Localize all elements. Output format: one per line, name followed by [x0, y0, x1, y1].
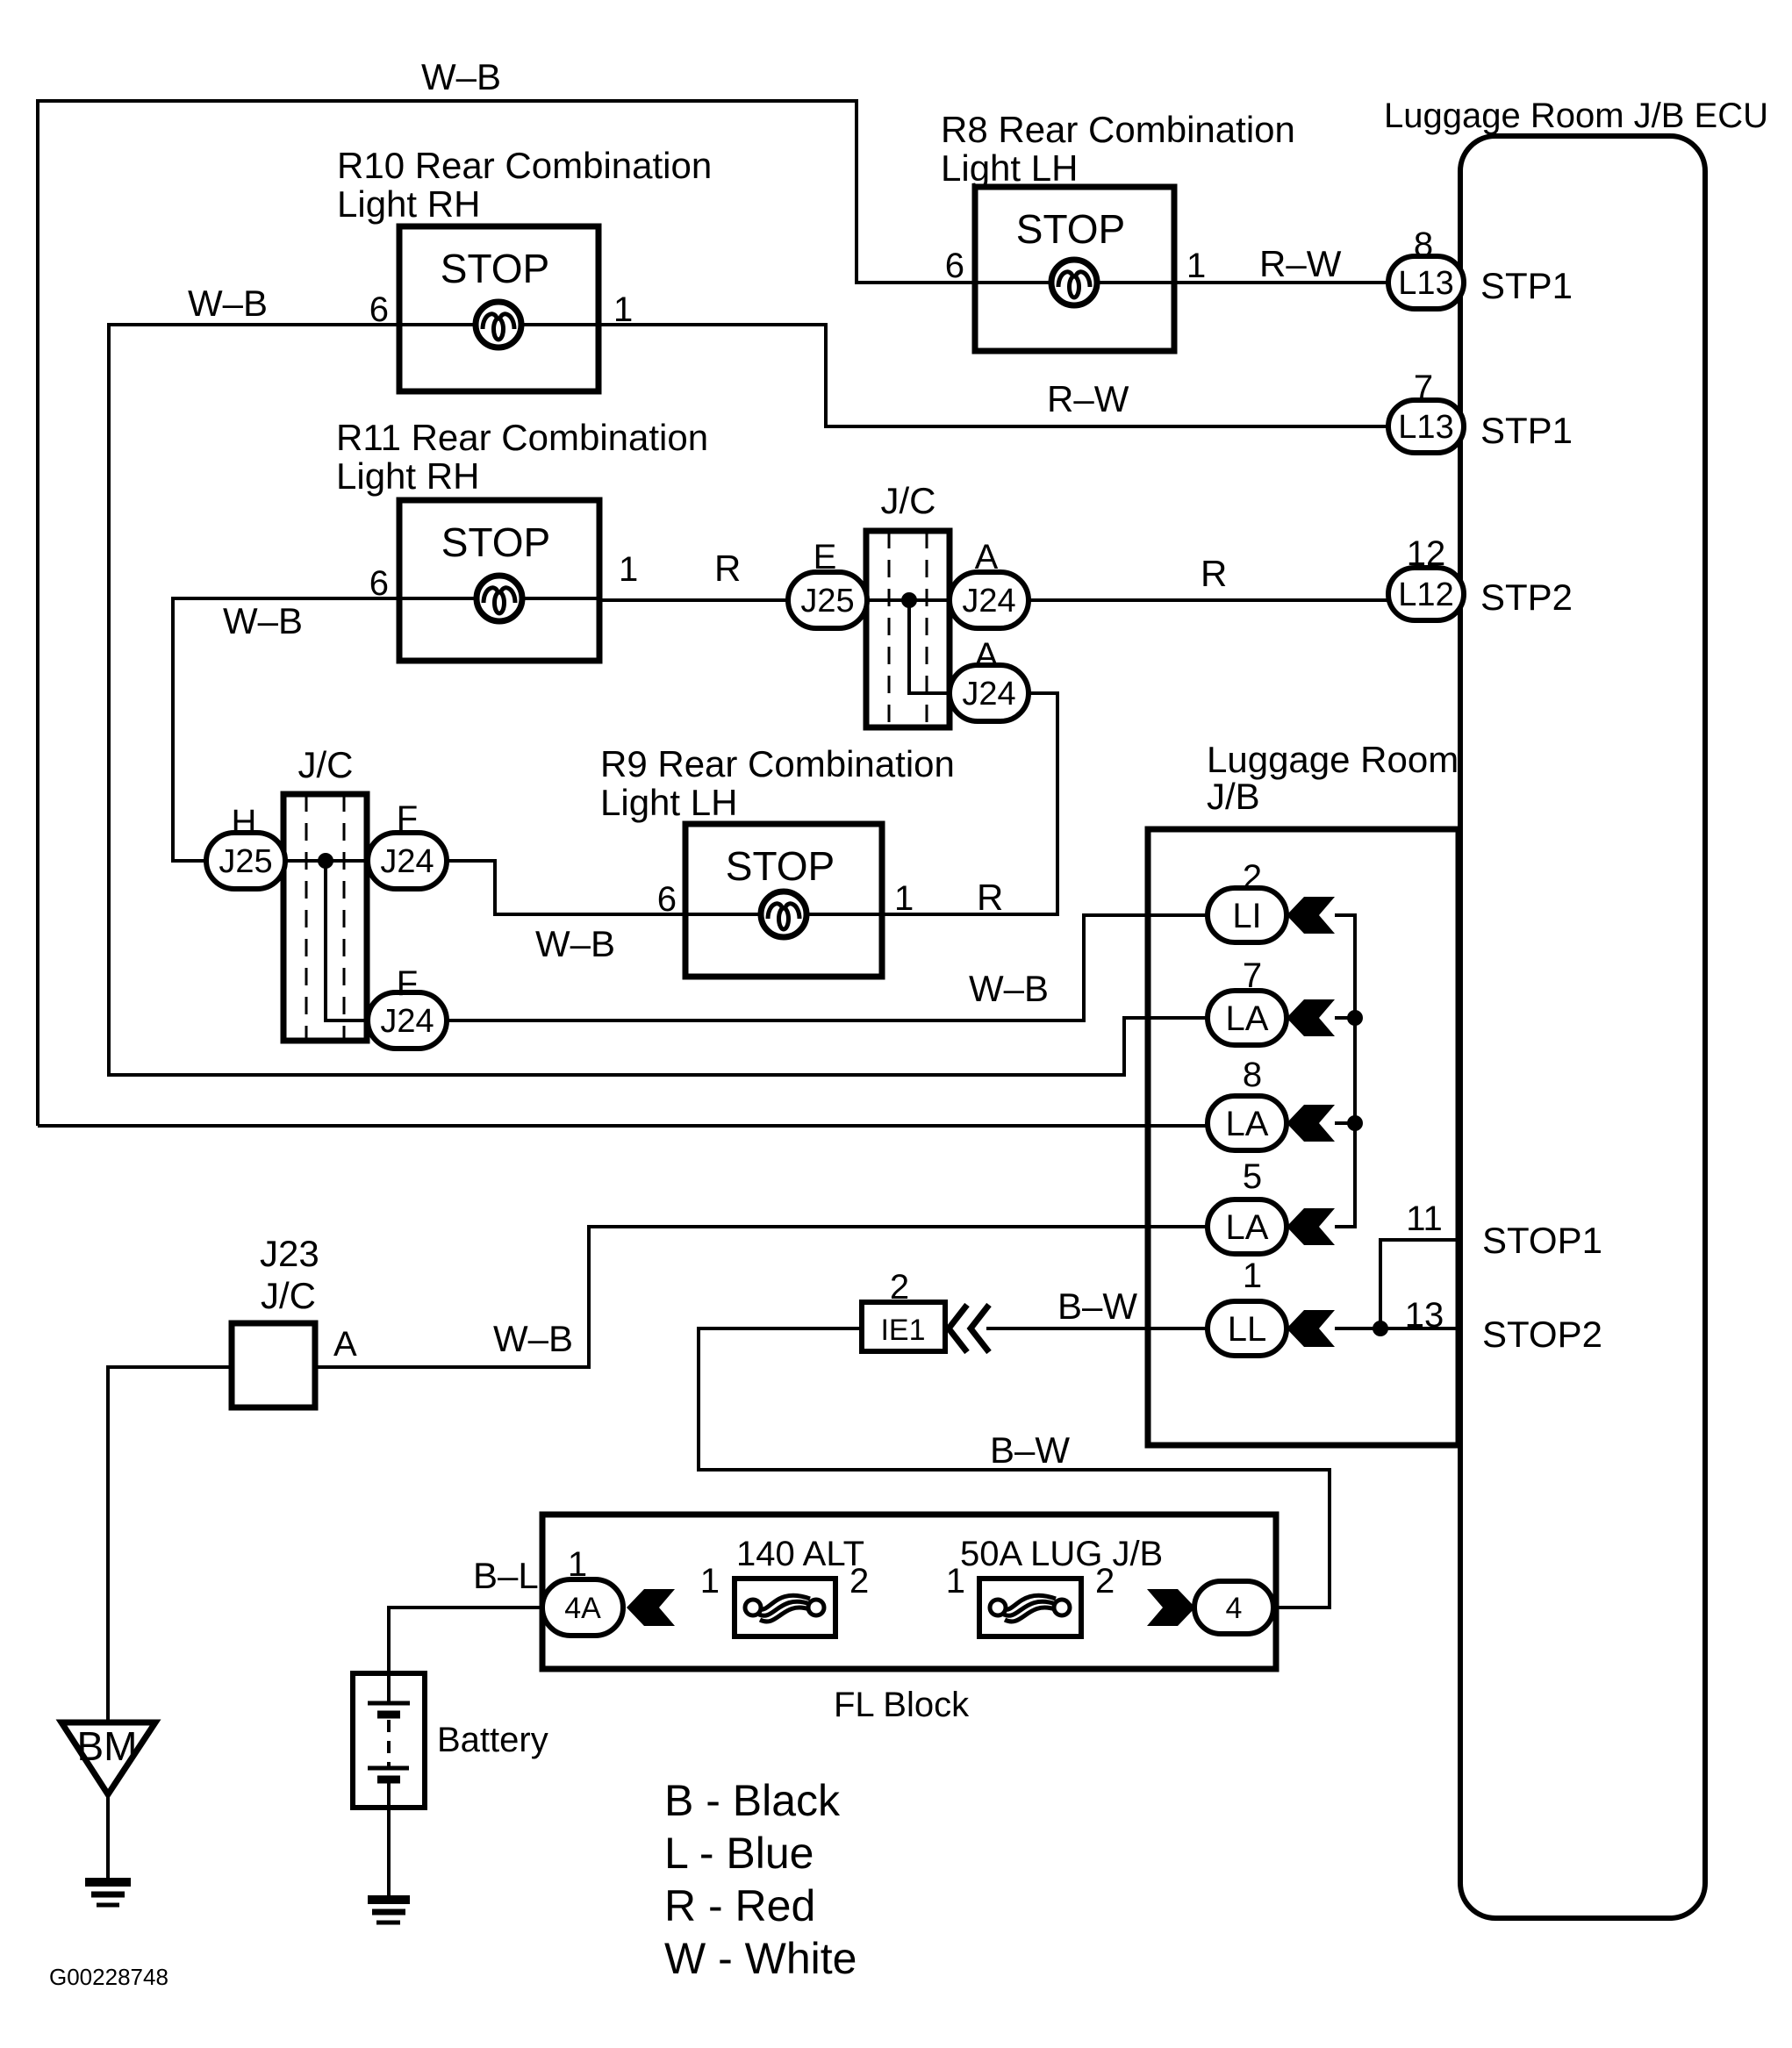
wire W-B: R10 pin 6 down left column to J/B LA pin 7: [109, 325, 1208, 1075]
FL Block box: [542, 1515, 1276, 1669]
wire inside J/C: junction to lower J24 F: [326, 861, 367, 1020]
bulb of R8: [1051, 260, 1097, 305]
svg-text:B–W: B–W: [990, 1429, 1070, 1471]
svg-text:4: 4: [1226, 1592, 1243, 1625]
wire R-W: R10 pin 1 to ECU L13 pin 7: [599, 325, 1388, 426]
wire W-B: J23 J/C to BM ground point: [108, 1367, 232, 1722]
svg-text:F: F: [397, 964, 418, 1003]
wire B-L: 4A connector to battery positive: [389, 1608, 542, 1673]
svg-text:13: 13: [1405, 1296, 1444, 1335]
svg-text:6: 6: [369, 564, 389, 603]
arrow into LA 7: [1287, 999, 1335, 1036]
svg-text:F: F: [397, 799, 418, 838]
wire through J/C J24: J25 H to J24 F: [206, 859, 447, 863]
svg-text:G00228748: G00228748: [49, 1964, 168, 1990]
wire W-B: bottom rail from left column to J/B LA pin 8: [38, 1124, 1208, 1128]
connector LA pin 8: [1208, 1096, 1287, 1150]
svg-text:W–B: W–B: [188, 283, 268, 324]
svg-text:L12: L12: [1398, 576, 1453, 613]
wire B-W: IE1 connector to J/B LL pin 1: [986, 1327, 1208, 1330]
svg-text:R8 Rear Combination: R8 Rear Combination: [941, 109, 1295, 150]
svg-text:2: 2: [1243, 858, 1262, 897]
svg-text:LI: LI: [1232, 897, 1261, 935]
svg-text:LA: LA: [1226, 999, 1269, 1038]
wire W-B: lower J24 F to J/B LI pin 2: [447, 915, 1208, 1020]
ECU box: Luggage Room J/B ECU: [1460, 136, 1705, 1918]
connector LA pin 5: [1208, 1199, 1287, 1254]
svg-text:R–W: R–W: [1259, 243, 1342, 284]
arrow into LL: [1287, 1310, 1335, 1347]
svg-text:R10 Rear Combination: R10 Rear Combination: [337, 145, 712, 186]
wire: BM triangle to ground: [106, 1794, 110, 1879]
svg-text:L13: L13: [1398, 409, 1453, 446]
wire inside J/C J23: J25 E to J24 A: [867, 598, 950, 602]
wire: J/B LL arrow to ECU pin 13 STOP2: [1335, 1327, 1460, 1330]
svg-text:A: A: [333, 1325, 357, 1364]
svg-text:E: E: [814, 538, 837, 576]
svg-text:W - White: W - White: [664, 1934, 857, 1983]
svg-text:H: H: [232, 803, 257, 841]
fusible link 50A LUG J/B: [979, 1579, 1081, 1636]
svg-text:5: 5: [1243, 1157, 1262, 1196]
arrow into LI: [1287, 897, 1335, 934]
wire inside J/C: junction to lower J24 A: [909, 600, 950, 693]
ground symbol below BM: [85, 1882, 131, 1905]
svg-text:4A: 4A: [564, 1592, 601, 1625]
junction inside left J/C: [318, 853, 333, 869]
svg-text:50A LUG J/B: 50A LUG J/B: [960, 1535, 1163, 1573]
wire: battery negative to ground: [387, 1808, 391, 1896]
svg-text:W–B: W–B: [223, 600, 303, 641]
bulb of R9: [761, 892, 806, 937]
lamp R11 Rear Combination Light RH: [399, 500, 599, 661]
svg-text:LA: LA: [1226, 1208, 1269, 1247]
svg-text:R: R: [977, 877, 1003, 918]
svg-text:Light RH: Light RH: [336, 455, 479, 497]
svg-text:Light RH: Light RH: [337, 183, 480, 225]
svg-text:R: R: [1201, 553, 1227, 594]
ground symbol below battery: [368, 1900, 410, 1923]
svg-text:J/B: J/B: [1207, 776, 1260, 817]
svg-text:STP1: STP1: [1480, 410, 1573, 451]
svg-text:11: 11: [1406, 1199, 1443, 1238]
svg-text:Light LH: Light LH: [941, 147, 1078, 189]
wire W-B: R11 pin 6 to J25 H of J/C: [173, 598, 399, 861]
bulb of R10: [476, 302, 521, 347]
svg-text:B–W: B–W: [1057, 1285, 1137, 1327]
svg-text:R: R: [714, 548, 741, 589]
svg-text:J24: J24: [380, 1003, 434, 1040]
svg-text:A: A: [975, 636, 999, 675]
arrow into LA 8: [1287, 1105, 1335, 1142]
svg-text:STOP: STOP: [726, 843, 835, 889]
svg-text:J24: J24: [380, 843, 434, 880]
connector J24 pin A: [950, 572, 1029, 628]
battery: [353, 1673, 425, 1808]
connector pin 4 of FL block: [1194, 1581, 1273, 1634]
svg-text:IE1: IE1: [880, 1314, 925, 1347]
wire: 4A to fuse 140 ALT pin 1: [623, 1606, 735, 1609]
svg-text:1: 1: [619, 550, 638, 589]
connector IE1: [862, 1302, 945, 1351]
svg-text:J25: J25: [800, 583, 854, 619]
svg-text:W–B: W–B: [535, 923, 615, 964]
svg-text:Light LH: Light LH: [600, 782, 737, 823]
svg-text:1: 1: [1186, 247, 1206, 285]
svg-text:8: 8: [1243, 1056, 1262, 1094]
svg-text:2: 2: [1095, 1562, 1115, 1600]
svg-text:Battery: Battery: [437, 1721, 548, 1759]
junction on bus at LA 7: [1347, 1010, 1363, 1026]
svg-text:2: 2: [849, 1562, 869, 1600]
junction on bus at LA 8: [1347, 1115, 1363, 1131]
fusible link 140 ALT: [735, 1579, 835, 1636]
svg-text:12: 12: [1407, 534, 1446, 573]
svg-text:STOP2: STOP2: [1482, 1314, 1602, 1355]
svg-text:STOP1: STOP1: [1482, 1220, 1602, 1261]
wire: J/B internal bus LI to LA: [1335, 915, 1355, 1227]
connector LA pin 7: [1208, 991, 1287, 1045]
wire B-W: IE1 down and across to FL block pin 4: [699, 1328, 1330, 1608]
connector 4A pin 1: [542, 1579, 623, 1636]
junction connector J23: [232, 1323, 315, 1407]
arrow into pin 4: [1147, 1589, 1195, 1626]
svg-text:STOP: STOP: [441, 519, 550, 565]
svg-text:W–B: W–B: [421, 56, 501, 97]
open chevron arrows at IE1: [949, 1305, 989, 1352]
junction block: Luggage Room J/B: [1148, 829, 1459, 1445]
junction connector J/C (left): [283, 794, 367, 1041]
svg-text:L13: L13: [1398, 265, 1453, 302]
svg-text:R - Red: R - Red: [664, 1881, 815, 1930]
svg-text:1: 1: [946, 1562, 965, 1600]
svg-text:1: 1: [894, 879, 914, 918]
svg-text:A: A: [975, 538, 999, 576]
svg-text:STP2: STP2: [1480, 576, 1573, 618]
svg-text:B - Black: B - Black: [664, 1776, 841, 1825]
svg-text:140 ALT: 140 ALT: [736, 1535, 864, 1573]
svg-text:6: 6: [945, 247, 964, 285]
svg-text:W–B: W–B: [969, 968, 1049, 1009]
svg-text:J/C: J/C: [261, 1275, 316, 1316]
lamp R9 Rear Combination Light LH: [685, 824, 882, 977]
wire R: R11 pin 1 to J25 E of J/C: [599, 598, 788, 602]
wire W-B: J23 J/C pin A to J/B LA pin 5: [315, 1227, 1208, 1367]
svg-text:R9 Rear Combination: R9 Rear Combination: [600, 743, 955, 784]
svg-text:STP1: STP1: [1480, 265, 1573, 306]
svg-text:6: 6: [657, 880, 677, 919]
connector LI pin 2: [1208, 888, 1287, 942]
wire W-B: top rail from left column to R8 pin 6: [38, 101, 975, 1126]
svg-text:J24: J24: [962, 676, 1015, 713]
svg-text:1: 1: [1243, 1257, 1262, 1295]
wire W-B: J24 F to R9 pin 6: [447, 861, 685, 914]
lamp R10 Rear Combination Light RH: [399, 226, 599, 391]
svg-text:R–W: R–W: [1047, 378, 1129, 419]
wire: bus tap to LA pin 7: [1335, 1016, 1355, 1020]
junction connector J/C (upper): [866, 531, 950, 727]
bulb of R11: [477, 576, 522, 621]
wire R-W: R8 pin 1 to ECU L13 pin 8: [1174, 281, 1388, 284]
svg-text:STOP: STOP: [1016, 206, 1125, 252]
ground point BM: [61, 1722, 155, 1794]
svg-text:LL: LL: [1228, 1310, 1267, 1349]
connector LL pin 1: [1208, 1301, 1287, 1356]
svg-text:Luggage Room: Luggage Room: [1207, 739, 1459, 780]
svg-text:1: 1: [613, 290, 633, 329]
svg-text:BM: BM: [77, 1723, 138, 1769]
svg-text:6: 6: [369, 290, 389, 329]
svg-text:1: 1: [568, 1545, 587, 1584]
svg-text:STOP: STOP: [441, 246, 549, 291]
svg-text:1: 1: [700, 1562, 720, 1600]
connector L12 pin 12 (STP2): [1388, 568, 1464, 620]
wire: bus tap to LA pin 8: [1335, 1121, 1355, 1125]
connector L13 pin 7 (STP1): [1388, 400, 1464, 453]
wire R: J24 A to ECU L12 pin 12: [1029, 598, 1388, 602]
svg-text:LA: LA: [1226, 1105, 1269, 1143]
svg-text:Luggage Room J/B ECU: Luggage Room J/B ECU: [1384, 97, 1768, 135]
connector J24 pin F: [368, 833, 447, 889]
svg-text:J/C: J/C: [298, 744, 354, 785]
connector J24 pin A lower: [950, 665, 1029, 721]
arrow into LA 5: [1287, 1208, 1335, 1245]
lamp R8 Rear Combination Light LH: [975, 187, 1174, 351]
wire R: lower J24 A to R9 pin 1: [882, 693, 1057, 914]
svg-text:L - Blue: L - Blue: [664, 1829, 814, 1878]
svg-text:7: 7: [1414, 369, 1433, 407]
svg-text:W–B: W–B: [493, 1318, 573, 1359]
wire: branch to ECU pin 11 STOP1: [1380, 1240, 1460, 1328]
wire: fuse 50A LUG pin 2 to arrow at pin 4: [1081, 1606, 1163, 1609]
svg-text:7: 7: [1243, 956, 1262, 995]
connector J25 pin H: [206, 833, 285, 889]
wire: fuse 140 ALT pin 2 to fuse 50A LUG pin 1: [835, 1606, 979, 1609]
junction inside upper J/C: [901, 592, 917, 608]
svg-text:J/C: J/C: [881, 480, 936, 521]
connector J25 pin E: [788, 572, 867, 628]
svg-text:2: 2: [890, 1268, 909, 1307]
svg-text:FL Block: FL Block: [834, 1686, 970, 1724]
junction at STOP2 branch: [1373, 1321, 1388, 1336]
svg-text:8: 8: [1414, 226, 1433, 264]
svg-text:J23: J23: [260, 1233, 319, 1274]
svg-text:J24: J24: [962, 583, 1015, 619]
svg-text:J25: J25: [219, 843, 272, 880]
connector L13 pin 8 (STP1): [1388, 256, 1464, 309]
arrow after 4A: [627, 1589, 675, 1626]
svg-text:B–L: B–L: [473, 1555, 539, 1596]
svg-text:R11 Rear Combination: R11 Rear Combination: [336, 417, 708, 458]
connector J24 pin F lower: [368, 992, 447, 1049]
